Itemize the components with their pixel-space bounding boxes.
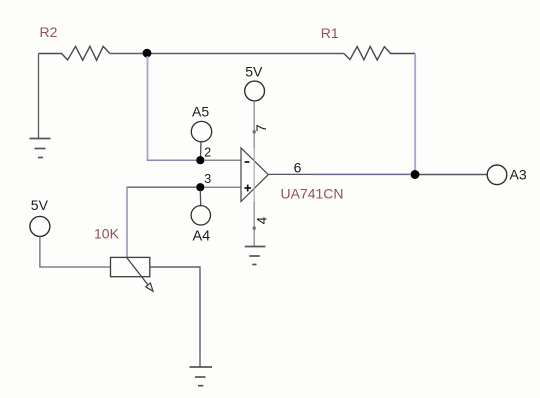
wire power pins vertical (pin 7 top, pin 4 bottom) xyxy=(253,101,255,149)
resistor R2 xyxy=(39,46,110,60)
svg-text:10K: 10K xyxy=(94,225,120,241)
op-amp minus sign xyxy=(245,161,250,163)
wire op-amp output lead xyxy=(268,173,311,175)
node pin 3 xyxy=(196,183,204,191)
op-amp plus sign xyxy=(244,185,251,192)
svg-text:UA741CN: UA741CN xyxy=(281,185,344,201)
potentiometer R3 body xyxy=(111,257,150,276)
svg-text:3: 3 xyxy=(204,172,211,186)
wire pin3 node to op-amp non-inverting input xyxy=(204,186,241,188)
wire top middle (R2 to R1) xyxy=(110,53,344,55)
svg-text:A5: A5 xyxy=(192,104,209,120)
wire horizontal into pin 2 node xyxy=(147,159,196,161)
svg-text:2: 2 xyxy=(204,145,211,159)
wire pin3 corner down to potentiometer wiper xyxy=(126,187,128,257)
source V2 5V circle (top) xyxy=(245,81,265,101)
potentiometer wiper arrow xyxy=(127,258,153,292)
wire horizontal into pin 3 node xyxy=(127,186,197,188)
terminal A3 circle xyxy=(487,165,507,185)
ground left xyxy=(30,139,51,158)
wire vertical from top junction down xyxy=(147,56,149,160)
svg-text:5V: 5V xyxy=(245,64,263,80)
pin 4 end marker xyxy=(253,227,256,230)
node pin 2 xyxy=(196,156,204,164)
svg-text:5V: 5V xyxy=(31,197,49,213)
wire potentiometer right to bottom ground xyxy=(150,267,200,367)
svg-text:6: 6 xyxy=(294,159,302,175)
wire pin3 node down to A4 xyxy=(199,191,201,206)
wire pin2 node to op-amp inverting input xyxy=(204,159,241,161)
svg-text:7: 7 xyxy=(254,124,269,132)
wire vertical from R1 down to output node xyxy=(414,54,416,175)
svg-text:R1: R1 xyxy=(321,25,339,41)
terminal A5 circle xyxy=(191,121,211,141)
node output junction xyxy=(411,170,420,179)
ground bottom xyxy=(190,367,213,386)
wire output to node xyxy=(311,173,410,175)
svg-text:A3: A3 xyxy=(510,167,527,183)
pin 7 end marker xyxy=(253,130,256,133)
wire R2 left lead down to ground xyxy=(38,54,40,139)
wire output node to A3 xyxy=(420,174,488,176)
resistor R1 xyxy=(344,47,415,61)
wire A5 to pin2 node xyxy=(200,142,203,158)
wire V1 to potentiometer left xyxy=(40,236,111,267)
node junction top (feedback node) xyxy=(143,49,152,58)
svg-text:A4: A4 xyxy=(193,229,211,245)
svg-text:R2: R2 xyxy=(40,24,58,40)
terminal A4 circle xyxy=(191,206,210,225)
ground under op-amp xyxy=(245,247,266,265)
svg-text:4: 4 xyxy=(254,216,269,224)
source V1 5V circle (left) xyxy=(30,216,50,236)
op-amp U1 body xyxy=(241,148,268,202)
